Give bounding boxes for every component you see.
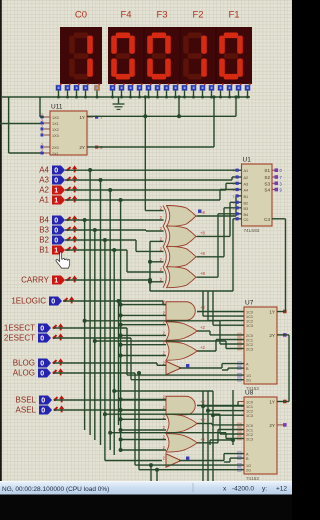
svg-text:1Y: 1Y — [79, 115, 85, 120]
svg-text:1C2: 1C2 — [246, 410, 253, 414]
svg-text:0: 0 — [40, 336, 44, 343]
svg-text:74153: 74153 — [246, 476, 259, 481]
svg-text:0: 0 — [54, 178, 58, 185]
svg-text:1: 1 — [233, 176, 235, 180]
svg-text:1: 1 — [233, 182, 235, 186]
svg-text:+2: +2 — [200, 325, 205, 330]
svg-text:ASEL: ASEL — [16, 406, 37, 415]
svg-text:1: 1 — [54, 278, 58, 285]
svg-text:B4: B4 — [39, 216, 49, 225]
svg-text:B2: B2 — [244, 201, 249, 205]
svg-text:1ESECT: 1ESECT — [4, 324, 35, 333]
svg-text:y:: y: — [262, 486, 267, 493]
svg-text:0: 0 — [41, 408, 45, 415]
svg-text:+8: +8 — [200, 251, 205, 256]
svg-text:+8: +8 — [200, 230, 205, 235]
svg-text:2C3: 2C3 — [246, 438, 253, 442]
svg-text:1G: 1G — [246, 464, 251, 468]
svg-text:0: 0 — [54, 168, 58, 175]
svg-text:U7: U7 — [245, 300, 254, 307]
svg-text:1: 1 — [233, 206, 235, 210]
svg-text:+2: +2 — [200, 305, 205, 310]
svg-text:0: 0 — [54, 238, 58, 245]
svg-text:1C1: 1C1 — [246, 315, 253, 319]
svg-text:1C3: 1C3 — [246, 324, 253, 328]
svg-text:2C0: 2C0 — [246, 424, 253, 428]
svg-text:0: 0 — [54, 228, 58, 235]
svg-text:2C1: 2C1 — [246, 339, 253, 343]
svg-text:2X1: 2X1 — [52, 152, 59, 156]
svg-text:1: 1 — [54, 188, 58, 195]
svg-text:C4: C4 — [264, 217, 270, 222]
svg-text:1G: 1G — [246, 374, 251, 378]
svg-text:+2: +2 — [200, 437, 205, 442]
svg-text:1: 1 — [54, 198, 58, 205]
svg-text:1C0: 1C0 — [246, 401, 253, 405]
svg-text:+2: +2 — [200, 400, 205, 405]
svg-text:2C1: 2C1 — [246, 429, 253, 433]
svg-text:U8: U8 — [245, 390, 254, 397]
svg-text:U11: U11 — [51, 104, 63, 111]
svg-text:1: 1 — [233, 212, 235, 216]
svg-text:A2: A2 — [244, 176, 249, 180]
svg-text:1: 1 — [54, 248, 58, 255]
svg-text:A3: A3 — [39, 176, 49, 185]
svg-text:0: 0 — [51, 299, 55, 306]
svg-text:+12: +12 — [276, 486, 287, 493]
svg-text:BLOG: BLOG — [13, 359, 35, 368]
svg-text:2Y: 2Y — [269, 423, 275, 428]
svg-text:B3: B3 — [244, 207, 249, 211]
svg-text:+8: +8 — [200, 271, 205, 276]
svg-text:1C2: 1C2 — [246, 320, 253, 324]
svg-text:C0: C0 — [244, 218, 249, 222]
svg-text:0: 0 — [40, 326, 44, 333]
svg-text:0: 0 — [41, 398, 45, 405]
svg-text:S1: S1 — [264, 168, 270, 173]
svg-text:0: 0 — [54, 218, 58, 225]
svg-text:2ESECT: 2ESECT — [4, 334, 35, 343]
svg-text:2G: 2G — [246, 469, 251, 473]
svg-text:NG, 00:00:28.100000 (CPU load: NG, 00:00:28.100000 (CPU load 0%) — [2, 486, 109, 493]
svg-text:C0: C0 — [75, 10, 87, 21]
svg-text:B2: B2 — [39, 236, 49, 245]
svg-text:-4200.0: -4200.0 — [232, 486, 254, 493]
svg-text:0: 0 — [40, 371, 44, 378]
svg-text:B1: B1 — [244, 195, 249, 199]
svg-text:F2: F2 — [192, 10, 203, 21]
svg-text:A2: A2 — [39, 186, 49, 195]
svg-text:F4: F4 — [120, 10, 131, 21]
svg-text:ALOG: ALOG — [13, 369, 35, 378]
svg-text:F1: F1 — [228, 10, 239, 21]
svg-text:2C0: 2C0 — [246, 334, 253, 338]
svg-text:A3: A3 — [244, 182, 249, 186]
svg-text:S2: S2 — [264, 175, 270, 180]
svg-text:1C1: 1C1 — [246, 405, 253, 409]
svg-text:U1: U1 — [243, 157, 252, 164]
svg-text:2C3: 2C3 — [246, 348, 253, 352]
svg-text:CARRY: CARRY — [21, 276, 50, 285]
svg-text:1: 1 — [233, 169, 235, 173]
svg-text:2G: 2G — [246, 379, 251, 383]
svg-text:1: 1 — [233, 188, 235, 192]
svg-text:A1: A1 — [244, 169, 249, 173]
svg-text:+2: +2 — [200, 418, 205, 423]
svg-text:S3: S3 — [264, 181, 270, 186]
svg-text:2Y: 2Y — [79, 145, 85, 150]
svg-text:1Y: 1Y — [269, 400, 275, 405]
svg-text:1X1: 1X1 — [52, 122, 59, 126]
svg-text:2Y: 2Y — [269, 333, 275, 338]
svg-text:1X0: 1X0 — [52, 116, 59, 120]
svg-text:1: 1 — [233, 217, 235, 221]
svg-text:0: 0 — [40, 361, 44, 368]
svg-text:A4: A4 — [39, 166, 49, 175]
svg-text:1: 1 — [233, 194, 235, 198]
svg-text:2C2: 2C2 — [246, 343, 253, 347]
svg-text:A1: A1 — [39, 196, 49, 205]
svg-text:1C0: 1C0 — [246, 311, 253, 315]
svg-text:1: 1 — [233, 201, 235, 205]
svg-text:+2: +2 — [200, 345, 205, 350]
svg-text:1ELOGIC: 1ELOGIC — [11, 297, 46, 306]
svg-text:F3: F3 — [156, 10, 167, 21]
svg-text:B4: B4 — [244, 213, 249, 217]
svg-text:2X0: 2X0 — [52, 146, 59, 150]
svg-text:1X3: 1X3 — [52, 134, 59, 138]
svg-text:2C2: 2C2 — [246, 433, 253, 437]
svg-text:BSEL: BSEL — [16, 396, 37, 405]
svg-text:B1: B1 — [39, 246, 49, 255]
svg-text:74LS83: 74LS83 — [244, 228, 260, 233]
svg-text:S4: S4 — [264, 188, 270, 193]
svg-text:1Y: 1Y — [269, 310, 275, 315]
svg-text:1X2: 1X2 — [52, 128, 59, 132]
svg-text:B3: B3 — [39, 226, 49, 235]
svg-text:A4: A4 — [244, 189, 249, 193]
svg-text:1C3: 1C3 — [246, 414, 253, 418]
